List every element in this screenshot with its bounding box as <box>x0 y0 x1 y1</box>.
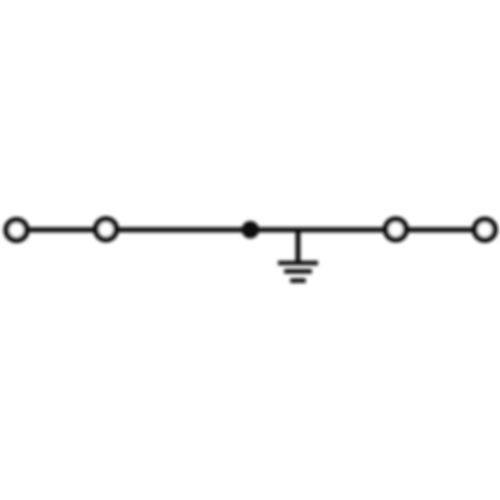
ground <box>278 263 318 281</box>
wire main horizontal bus <box>17 227 485 232</box>
terminal T4 <box>475 220 495 240</box>
wire ground tap vertical <box>296 230 301 262</box>
terminal T1 <box>6 220 26 240</box>
terminal T2 <box>96 219 116 239</box>
terminal T3 <box>386 219 406 239</box>
node junction dot <box>242 221 260 239</box>
